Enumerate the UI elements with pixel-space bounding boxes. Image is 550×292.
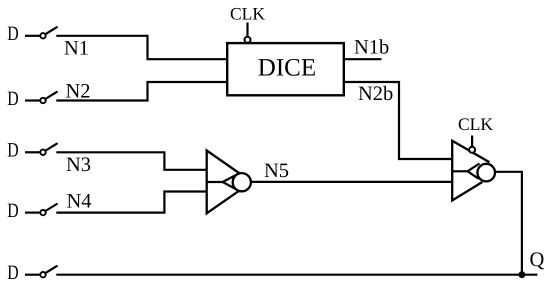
wire N1b: DICE output stub <box>344 58 382 60</box>
wire N3: switch to gate U1 input (step down) <box>56 152 206 170</box>
gate U2: output circle <box>477 164 495 182</box>
gate U2: clock bubble <box>469 147 475 153</box>
switch D row1: pivot circle <box>40 33 45 38</box>
wire N5: gate U1 output to gate U2 lower input <box>250 181 452 183</box>
switch D row1: lead wire <box>25 35 40 37</box>
gate U1 (C-element): input stub <box>207 181 223 183</box>
svg-text:CLK: CLK <box>230 3 265 23</box>
switch D row4: pivot circle <box>40 210 45 215</box>
CLK inversion bubble on DICE <box>245 37 251 43</box>
switch D row2: lever <box>45 92 56 99</box>
switch D row5: pivot circle <box>40 272 45 277</box>
svg-text:CLK: CLK <box>458 114 493 134</box>
switch D row3: lead wire <box>25 151 40 153</box>
svg-text:N5: N5 <box>264 160 289 182</box>
gate U1: output circle <box>233 173 251 191</box>
svg-text:N3: N3 <box>66 154 91 176</box>
switch D row3: lever <box>45 144 56 151</box>
wire: bottom D feed-through to output Q <box>56 274 537 276</box>
gate U1: triangle body <box>207 151 252 214</box>
gate U1: inner wedge upper <box>223 173 241 182</box>
svg-text:N2b: N2b <box>358 83 393 105</box>
switch D row2: pivot circle <box>40 98 45 103</box>
svg-text:N2: N2 <box>66 81 91 103</box>
switch D row3: pivot circle <box>40 150 45 155</box>
gate U1: inner wedge lower <box>223 182 241 192</box>
wire N2b: DICE output to gate U2 upper input <box>344 82 452 159</box>
svg-text:DICE: DICE <box>258 55 316 82</box>
svg-text:D: D <box>7 23 18 45</box>
gate U2: body (left edge, top slant tangent over circle, bottom slant) <box>452 141 489 201</box>
DICE block U0 <box>227 43 344 95</box>
svg-text:D: D <box>7 262 18 284</box>
svg-text:N4: N4 <box>67 190 92 212</box>
switch D row5: lead wire <box>25 274 40 276</box>
svg-text:D: D <box>7 88 18 110</box>
switch D row2: lead wire <box>25 99 40 101</box>
gate U2: inner wedge upper <box>468 164 480 172</box>
svg-text:D: D <box>7 140 18 162</box>
svg-text:N1: N1 <box>64 37 89 59</box>
switch D row5: lever <box>45 266 56 273</box>
svg-text:D: D <box>7 200 18 222</box>
wire: CLK to DICE <box>246 23 248 37</box>
wire: gate U2 output to Q node <box>495 172 522 275</box>
svg-text:N1b: N1b <box>354 37 389 59</box>
junction dot at Q <box>519 271 526 278</box>
switch D row4: lever <box>45 204 56 211</box>
wire N1: switch to DICE input (step down) <box>56 36 227 59</box>
wire: CLK to gate U2 <box>471 136 473 148</box>
svg-text:Q: Q <box>530 249 545 271</box>
switch D row1: lever <box>45 27 56 34</box>
wire N2: switch to DICE input (step up) <box>56 82 227 101</box>
switch D row4: lead wire <box>25 212 40 214</box>
gate U2: inner wedge lower <box>468 171 479 179</box>
wire N4: switch to gate U1 input (step up) <box>56 192 206 213</box>
gate U2 (clocked C-element): input stub <box>452 170 467 172</box>
